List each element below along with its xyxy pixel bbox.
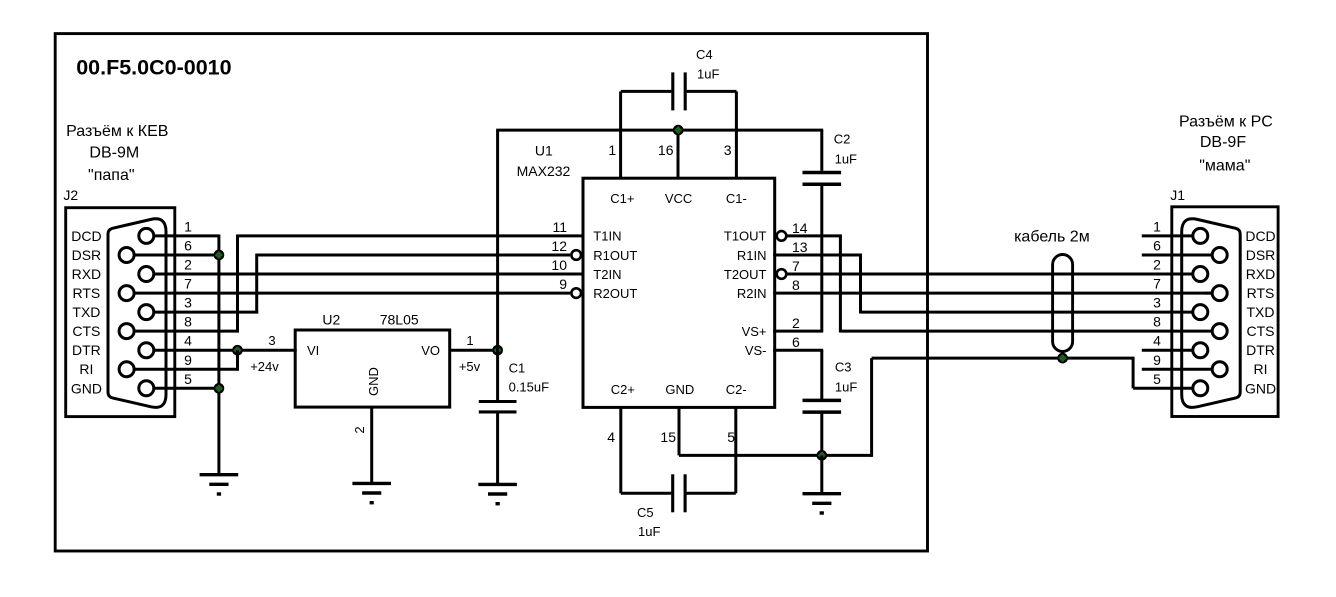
svg-text:C1: C1 <box>509 361 526 376</box>
svg-text:16: 16 <box>658 142 674 158</box>
svg-text:MAX232: MAX232 <box>517 163 571 179</box>
svg-text:1: 1 <box>1153 218 1161 234</box>
wire J2 pin1 DCD stub <box>146 234 219 237</box>
svg-text:2: 2 <box>792 315 800 331</box>
wire J1 pin9 stub <box>1142 368 1213 371</box>
wire CTS riser <box>236 235 239 333</box>
wire J1 pin6 stub <box>1142 254 1213 257</box>
svg-text:R2OUT: R2OUT <box>593 286 637 301</box>
J1 pin 2 RXD circle <box>1193 267 1208 282</box>
wire R1IN jog down <box>859 254 862 314</box>
connector J1 <box>1153 207 1278 417</box>
wire U1 C2+ lead <box>619 407 622 493</box>
wire T2OUT to J1 pin2 <box>786 273 1193 276</box>
svg-text:00.F5.0C0-0010: 00.F5.0C0-0010 <box>76 56 231 80</box>
svg-text:R2IN: R2IN <box>737 286 767 301</box>
svg-text:10: 10 <box>551 257 567 273</box>
J1 pin 5 GND circle <box>1193 381 1208 396</box>
svg-text:3: 3 <box>184 295 192 311</box>
wire R1IN to J1 pin3 <box>861 311 1193 314</box>
svg-text:T2IN: T2IN <box>593 267 621 282</box>
schematic border frame <box>55 34 927 551</box>
J2 pin circles <box>119 228 154 395</box>
ground G3 under C1 <box>478 484 517 503</box>
junction node +5v <box>492 345 503 356</box>
svg-text:1uF: 1uF <box>835 380 857 395</box>
J1 pin 8 CTS circle <box>1212 324 1227 339</box>
svg-text:2: 2 <box>1153 257 1161 273</box>
svg-text:1uF: 1uF <box>697 67 719 82</box>
svg-text:2: 2 <box>352 426 367 433</box>
wire U2 GND pin <box>370 407 373 483</box>
wire T1OUT to J1 pin8 <box>840 330 1212 333</box>
junction node VCC <box>673 125 684 136</box>
ground G4 under C3 <box>803 494 842 513</box>
svg-text:VI: VI <box>307 343 319 358</box>
wire cable shield tail <box>1061 350 1064 358</box>
J1 pin 4 DTR circle <box>1193 343 1208 358</box>
junction node GND/ground <box>214 383 225 394</box>
capacitor C5 <box>673 474 685 512</box>
wire U1 pin1 C1+ lead <box>619 91 622 178</box>
svg-text:1uF: 1uF <box>638 524 660 539</box>
junction node cable shield/ground <box>1057 353 1068 364</box>
svg-text:+24v: +24v <box>250 359 279 374</box>
svg-text:3: 3 <box>724 142 732 158</box>
ground G2 under U2 <box>352 483 391 502</box>
capacitor C1 <box>479 402 517 412</box>
svg-text:8: 8 <box>792 277 800 293</box>
svg-text:TXD: TXD <box>1247 304 1275 320</box>
wire TXD stub <box>146 311 258 314</box>
U1 T1OUT bubble <box>777 231 787 241</box>
svg-text:RXD: RXD <box>1246 266 1276 282</box>
svg-text:GND: GND <box>1245 380 1276 396</box>
J2 pin 9 RI circle <box>119 362 134 377</box>
wire C5 right lead <box>687 492 736 495</box>
svg-text:DTR: DTR <box>1246 342 1275 358</box>
svg-text:T2OUT: T2OUT <box>724 267 767 282</box>
svg-text:GND: GND <box>366 367 381 396</box>
IC U1 MAX232 box <box>583 178 775 407</box>
connector J2 <box>66 208 192 417</box>
wire DTR to U2 VI (+24v) <box>146 349 296 352</box>
wire ground to J1 pin5 <box>1133 387 1193 390</box>
J2 pin 1 DCD circle <box>139 228 154 243</box>
wire C5 left lead <box>621 492 672 495</box>
wire ground drop at J1 <box>1132 358 1135 388</box>
svg-text:8: 8 <box>184 314 192 330</box>
wire ground node to G4 <box>820 455 823 493</box>
J2 pin 2 RXD circle <box>139 267 154 282</box>
wire U1 pin16 VCC lead <box>677 130 680 178</box>
svg-text:кабель 2м: кабель 2м <box>1014 229 1090 246</box>
svg-text:14: 14 <box>792 220 808 236</box>
capacitor C4 <box>673 72 685 110</box>
svg-text:1uF: 1uF <box>835 152 857 167</box>
wire J2 pin5 GND stub <box>146 387 219 390</box>
svg-text:RI: RI <box>79 361 93 377</box>
wire RTS to R2OUT <box>127 292 571 295</box>
svg-text:RTS: RTS <box>73 285 101 301</box>
svg-text:C2: C2 <box>834 132 851 147</box>
wire C4 left lead <box>621 90 672 93</box>
wire RXD to T2IN <box>146 273 584 276</box>
svg-text:7: 7 <box>1153 276 1161 292</box>
svg-text:DSR: DSR <box>72 247 102 263</box>
wire J2 ground vertical <box>217 235 220 475</box>
J2 pin 6 DSR circle <box>119 248 134 263</box>
wire +5v riser to VCC rail <box>496 130 499 350</box>
wire J1 pin7 tail <box>1205 292 1212 295</box>
wire +5v to C1 <box>496 350 499 401</box>
junction node C3/ground <box>816 450 827 461</box>
wire VS- stub <box>773 349 823 352</box>
wire C4 right lead <box>687 90 737 93</box>
wire C1 to ground <box>496 412 499 485</box>
wire ground riser right <box>870 358 873 457</box>
svg-text:3: 3 <box>268 333 275 348</box>
svg-text:13: 13 <box>792 239 808 255</box>
svg-text:9: 9 <box>1153 352 1161 368</box>
svg-text:RXD: RXD <box>72 266 102 282</box>
capacitor C2 <box>803 173 842 185</box>
J2 pin 8 CTS circle <box>119 324 134 339</box>
wire GND to ground node <box>679 454 872 457</box>
svg-text:T1OUT: T1OUT <box>724 229 767 244</box>
wire TXD riser <box>255 254 258 314</box>
svg-text:T1IN: T1IN <box>593 229 621 244</box>
svg-text:R1IN: R1IN <box>737 248 767 263</box>
wire J1 pin2 tail <box>1185 273 1193 276</box>
wire RI stub <box>127 368 239 371</box>
junction node DSR/ground <box>214 250 225 261</box>
svg-text:1: 1 <box>466 333 473 348</box>
svg-text:J2: J2 <box>63 187 78 203</box>
svg-text:C2-: C2- <box>726 382 747 397</box>
svg-text:7: 7 <box>792 258 800 274</box>
J1 pin 6 DSR circle <box>1212 248 1227 263</box>
capacitor C3 <box>803 400 842 412</box>
svg-text:15: 15 <box>660 429 676 445</box>
wire C3 to ground node <box>820 413 823 456</box>
wire VCC rail to C2 <box>820 130 823 171</box>
J2 pin 5 GND circle <box>139 381 154 396</box>
svg-text:C1-: C1- <box>726 191 747 206</box>
J2 D-shell <box>108 219 166 408</box>
J1 pin 1 DCD circle <box>1193 228 1208 243</box>
U1 R1OUT bubble <box>571 250 581 260</box>
svg-text:11: 11 <box>552 219 567 235</box>
svg-text:"мама": "мама" <box>1199 158 1250 175</box>
svg-text:R1OUT: R1OUT <box>593 248 637 263</box>
wire T1IN horizontal <box>238 234 585 237</box>
J2 pin 3 TXD circle <box>139 305 154 320</box>
junction node DTR/+24v <box>232 345 243 356</box>
svg-text:5: 5 <box>1153 371 1161 387</box>
svg-text:VO: VO <box>421 343 440 358</box>
J1 pin circles <box>1193 228 1227 395</box>
svg-text:CTS: CTS <box>1247 323 1275 339</box>
svg-text:U2: U2 <box>322 311 340 327</box>
svg-text:U1: U1 <box>535 143 553 159</box>
svg-text:Разъём к КЕВ: Разъём к КЕВ <box>66 123 168 140</box>
svg-text:+5v: +5v <box>459 359 481 374</box>
svg-text:GND: GND <box>71 380 102 396</box>
ground G1 under J2 <box>200 475 239 494</box>
svg-text:TXD: TXD <box>72 304 100 320</box>
svg-text:6: 6 <box>1153 238 1161 254</box>
U1 R2OUT bubble <box>571 288 581 298</box>
svg-text:RTS: RTS <box>1247 285 1275 301</box>
svg-text:4: 4 <box>184 333 192 349</box>
svg-text:9: 9 <box>559 276 567 292</box>
svg-text:C3: C3 <box>835 360 852 375</box>
J2 body rectangle <box>66 208 175 417</box>
J1 D-shell <box>1182 219 1241 408</box>
svg-text:8: 8 <box>1153 314 1161 330</box>
svg-text:GND: GND <box>665 382 694 397</box>
svg-text:7: 7 <box>184 276 192 292</box>
J1 pin 9 RI circle <box>1212 362 1227 377</box>
svg-text:DSR: DSR <box>1246 247 1276 263</box>
J2 pin 7 RTS circle <box>119 286 134 301</box>
svg-text:4: 4 <box>607 429 615 445</box>
svg-text:VS-: VS- <box>745 343 767 358</box>
wire VCC rail <box>496 129 823 132</box>
J1 pin 7 RTS circle <box>1212 286 1227 301</box>
svg-text:6: 6 <box>184 238 192 254</box>
svg-text:C5: C5 <box>637 505 654 520</box>
wire U1 C2- lead <box>734 407 737 493</box>
wire VS- to C3 <box>820 350 823 399</box>
wire R1IN lead <box>773 254 862 257</box>
wire C2 to VS+ <box>820 186 823 331</box>
wire T1OUT lead <box>786 234 842 237</box>
svg-text:DB-9F: DB-9F <box>1200 134 1246 151</box>
svg-text:4: 4 <box>1153 333 1161 349</box>
wire J2 pin6 DSR stub <box>127 254 219 257</box>
svg-text:"папа": "папа" <box>88 167 134 184</box>
wire U2 VO to +5v node <box>450 349 498 352</box>
U1 T2OUT bubble <box>777 269 787 279</box>
svg-text:C2+: C2+ <box>611 382 635 397</box>
svg-text:2: 2 <box>184 257 192 273</box>
J1 body rectangle <box>1172 207 1278 417</box>
svg-text:5: 5 <box>184 371 192 387</box>
wire ground to J1 <box>872 357 1135 360</box>
wire U1 pin3 C1- lead <box>735 91 738 178</box>
svg-text:12: 12 <box>551 238 567 254</box>
svg-text:78L05: 78L05 <box>380 311 419 327</box>
svg-text:6: 6 <box>792 334 800 350</box>
svg-text:DCD: DCD <box>71 228 101 244</box>
svg-text:RI: RI <box>1254 361 1268 377</box>
wire U1 GND lead <box>678 407 681 455</box>
svg-text:C1+: C1+ <box>610 191 634 206</box>
svg-text:1: 1 <box>608 142 616 158</box>
svg-text:0.15uF: 0.15uF <box>509 380 550 395</box>
cable symbol (кабель 2м) <box>1053 255 1073 352</box>
wire VS+ stub <box>773 330 823 333</box>
svg-text:C4: C4 <box>696 47 713 62</box>
wire T1OUT jog down <box>839 235 842 333</box>
wire R1OUT horizontal <box>257 254 571 257</box>
svg-text:DB-9M: DB-9M <box>89 145 139 162</box>
wire J1 pin1 stub <box>1142 234 1193 237</box>
svg-text:CTS: CTS <box>72 323 100 339</box>
svg-text:VCC: VCC <box>665 191 692 206</box>
wire CTS stub <box>127 330 239 333</box>
svg-text:5: 5 <box>727 429 735 445</box>
svg-text:VS+: VS+ <box>742 324 767 339</box>
J1 pin 3 TXD circle <box>1193 305 1208 320</box>
svg-text:9: 9 <box>184 352 192 368</box>
J2 pin 4 DTR circle <box>139 343 154 358</box>
svg-text:DTR: DTR <box>72 342 101 358</box>
svg-text:Разъём к PC: Разъём к PC <box>1179 114 1273 131</box>
regulator U2 78L05 box <box>295 330 450 407</box>
wire R2IN to J1 pin7 <box>773 292 1212 295</box>
svg-text:DCD: DCD <box>1245 228 1275 244</box>
wire J1 pin4 stub <box>1142 349 1193 352</box>
wire DTR to RI riser <box>236 350 239 370</box>
svg-text:3: 3 <box>1153 295 1161 311</box>
svg-text:J1: J1 <box>1170 187 1185 203</box>
svg-text:1: 1 <box>184 218 192 234</box>
